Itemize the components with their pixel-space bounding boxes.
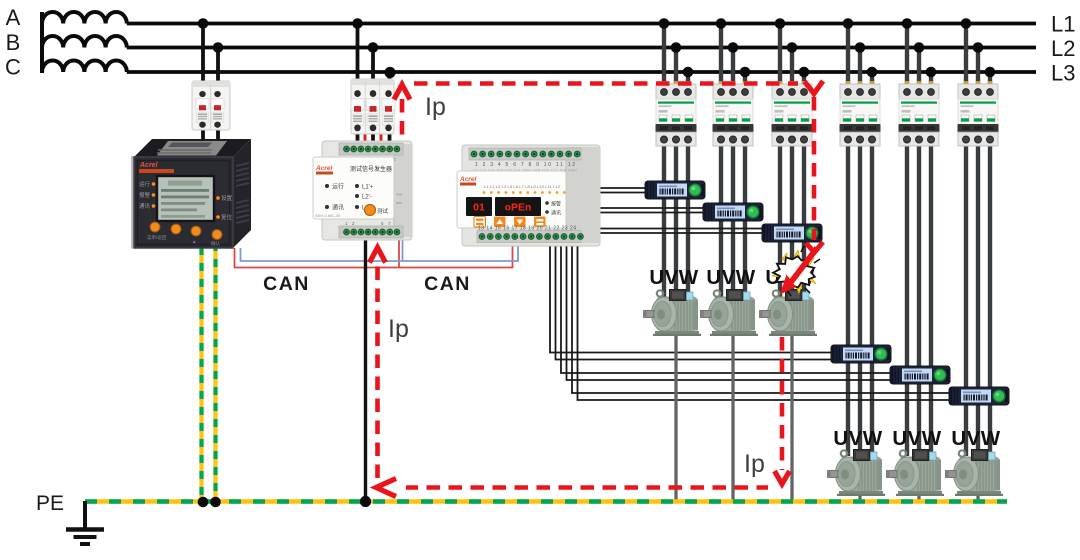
svg-text:C: C	[5, 55, 21, 80]
svg-text:PE: PE	[36, 492, 64, 515]
svg-text:测试: 测试	[377, 207, 389, 215]
svg-text:复位: 复位	[221, 213, 233, 221]
svg-text:UVW: UVW	[833, 427, 882, 450]
svg-text:▲: ▲	[192, 239, 196, 244]
svg-text:运行: 运行	[332, 183, 344, 191]
svg-text:通讯: 通讯	[332, 204, 344, 212]
svg-text:Acrel: Acrel	[315, 165, 332, 172]
svg-text:A: A	[6, 5, 21, 30]
svg-text:L3: L3	[1051, 61, 1075, 86]
svg-text:1 2 3 4 5 6 7 8 9 10 11 12: 1 2 3 4 5 6 7 8 9 10 11 12	[475, 162, 575, 168]
svg-text:报警: 报警	[551, 201, 561, 208]
svg-text:L1 L2 L3 L4 L5 L6 L7 L8 L9 L10: L1 L2 L3 L4 L5 L6 L7 L8 L9 L10 L11 L12	[484, 184, 561, 189]
svg-text:Ip: Ip	[388, 315, 409, 343]
svg-text:AKH-0.66L-45: AKH-0.66L-45	[315, 213, 341, 218]
svg-text:L1'+: L1'+	[362, 185, 374, 191]
svg-text:UVW: UVW	[951, 427, 1000, 450]
svg-text:测试信号发生器: 测试信号发生器	[350, 165, 392, 173]
svg-text:L2: L2	[1051, 36, 1075, 61]
svg-text:CAN: CAN	[263, 273, 310, 295]
svg-text:UVW: UVW	[892, 427, 941, 450]
svg-text:设置: 设置	[221, 194, 233, 202]
svg-text:UVW: UVW	[649, 266, 698, 289]
svg-text:01: 01	[473, 202, 485, 214]
svg-text:oPEn: oPEn	[505, 202, 532, 214]
svg-text:通讯: 通讯	[551, 210, 561, 217]
svg-text:通讯: 通讯	[139, 202, 151, 210]
svg-text:菜单/返回: 菜单/返回	[147, 234, 167, 241]
svg-text:UVW: UVW	[706, 266, 755, 289]
svg-text:确认: 确认	[211, 240, 220, 247]
svg-text:B: B	[6, 30, 21, 55]
svg-text:L2'-: L2'-	[362, 195, 372, 201]
svg-text:CAN: CAN	[424, 273, 471, 295]
svg-text:Acrel: Acrel	[459, 176, 476, 183]
svg-text:Ip: Ip	[425, 93, 446, 121]
svg-text:Ip: Ip	[744, 450, 765, 478]
svg-text:L1: L1	[1051, 12, 1075, 37]
svg-text:Acrel: Acrel	[139, 162, 159, 169]
svg-text:运行: 运行	[139, 180, 151, 188]
svg-text:报警: 报警	[139, 191, 151, 199]
